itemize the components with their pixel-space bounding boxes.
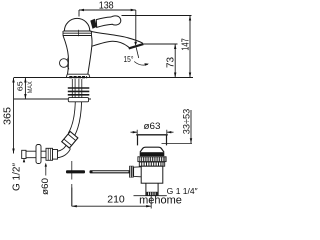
tailpipe thread bbox=[146, 192, 157, 196]
drain body bbox=[141, 166, 163, 183]
dimension 73 extension line bbox=[143, 43, 178, 45]
faucet body right edge bbox=[88, 36, 92, 75]
dimension 73 arrows bbox=[174, 44, 176, 78]
G 1 1/4 label bbox=[167, 186, 198, 196]
mounting washer bbox=[68, 98, 88, 102]
handle lever bbox=[96, 16, 120, 28]
drain cup rim bbox=[136, 134, 168, 136]
svg-text:ø63: ø63 bbox=[144, 121, 161, 132]
plug seat dark band bbox=[140, 152, 165, 156]
pop-up rod bar left bbox=[66, 170, 85, 173]
dimension 138 arrows bbox=[79, 9, 136, 11]
spout outlet face (thick) bbox=[129, 44, 144, 48]
wall pipe stub bbox=[22, 150, 26, 158]
dimension 33-53 text bbox=[182, 109, 193, 135]
dimension 210 extension right bbox=[150, 196, 152, 209]
svg-text:210: 210 bbox=[107, 194, 125, 206]
pop-up knob circle bbox=[60, 59, 69, 68]
dia 60 leader arrow bbox=[45, 165, 47, 176]
shank thread bars bbox=[68, 88, 90, 95]
threaded shank vertical lines bbox=[72, 79, 82, 98]
drain locknut band bbox=[139, 162, 164, 166]
dimension 65 MAX line bbox=[24, 78, 26, 100]
dimension 365 text bbox=[2, 107, 14, 125]
15 deg tilted reference line bbox=[136, 48, 139, 59]
dimension 73 text bbox=[166, 57, 177, 68]
svg-text:365: 365 bbox=[2, 107, 14, 125]
15 deg text bbox=[124, 55, 134, 64]
dimension 33-53 line bbox=[190, 110, 192, 143]
dimension 147 extension line top bbox=[122, 15, 192, 17]
pop-up knob stems bbox=[67, 58, 69, 70]
faucet centerline bbox=[71, 161, 73, 206]
rod coupling bbox=[134, 167, 142, 177]
faucet collar center tick bbox=[78, 30, 80, 37]
dia 60 label bbox=[40, 178, 51, 195]
drain thread band bbox=[138, 157, 166, 162]
15 deg arrow onto outlet face bbox=[134, 42, 137, 46]
watermark bbox=[139, 195, 182, 207]
supply pipe curve bbox=[68, 102, 81, 136]
dia 63 dimension arrows bbox=[131, 130, 174, 134]
wall pipe bbox=[26, 151, 46, 158]
faucet base bbox=[66, 74, 90, 77]
dimension 147 line bbox=[189, 16, 191, 78]
deck underside line bbox=[14, 98, 91, 100]
dimension 33-53 extension bbox=[162, 143, 193, 145]
svg-text:ø60: ø60 bbox=[40, 178, 51, 195]
spout bottom curve bbox=[92, 41, 130, 48]
rod knurled nut bbox=[129, 166, 133, 178]
dimension 210 extension left bbox=[71, 188, 73, 207]
pipe ring bbox=[53, 150, 58, 160]
handle collar (dark) bbox=[90, 19, 97, 29]
countertop deck line bbox=[14, 77, 193, 79]
dimension 365 line bbox=[13, 78, 15, 154]
svg-text:G 1/2″: G 1/2″ bbox=[11, 163, 23, 191]
faucet collar rings bbox=[63, 31, 92, 36]
15 deg arc bbox=[134, 62, 148, 66]
dimension 210 line bbox=[72, 205, 151, 207]
escutcheon flange bbox=[36, 145, 41, 164]
dimension 138 text bbox=[99, 1, 114, 12]
svg-text:147: 147 bbox=[179, 38, 191, 51]
drain tailpipe bbox=[146, 183, 158, 195]
dia 63 text bbox=[144, 121, 161, 132]
dimension 147 arrows bbox=[189, 16, 191, 78]
pop-up rod long bar bbox=[90, 170, 131, 173]
drain cup walls bbox=[138, 135, 167, 146]
dimension 65 text bbox=[16, 81, 25, 91]
dimension 73 line bbox=[174, 44, 176, 78]
svg-text:15°: 15° bbox=[124, 55, 134, 64]
svg-text:MAX: MAX bbox=[27, 81, 34, 94]
dimension 210 text bbox=[107, 194, 125, 206]
faucet body left edge bbox=[63, 36, 68, 75]
svg-text:65: 65 bbox=[16, 81, 25, 91]
svg-text:73: 73 bbox=[166, 57, 177, 68]
faucet base gasket (dark dashes) bbox=[69, 76, 87, 78]
tailpipe bottom line bbox=[134, 195, 167, 197]
spout top curve bbox=[90, 31, 143, 43]
pop-up plug dome bbox=[140, 147, 164, 152]
svg-text:mehome: mehome bbox=[139, 195, 182, 207]
extension line from 138 down to spout outlet bbox=[135, 10, 137, 42]
dimension MAX text bbox=[27, 81, 34, 94]
supply pipe hex nut bbox=[62, 132, 78, 149]
supply pipe elbow to wall bbox=[58, 146, 71, 158]
G 1/2 label bbox=[11, 163, 23, 191]
G 1/2 leader arrow bbox=[23, 160, 25, 163]
dimension 138 line bbox=[79, 10, 136, 17]
pipe nut bbox=[46, 148, 53, 160]
dimension 147 text bbox=[179, 38, 191, 51]
faucet dome bbox=[64, 18, 89, 31]
svg-text:33÷53: 33÷53 bbox=[182, 109, 193, 135]
